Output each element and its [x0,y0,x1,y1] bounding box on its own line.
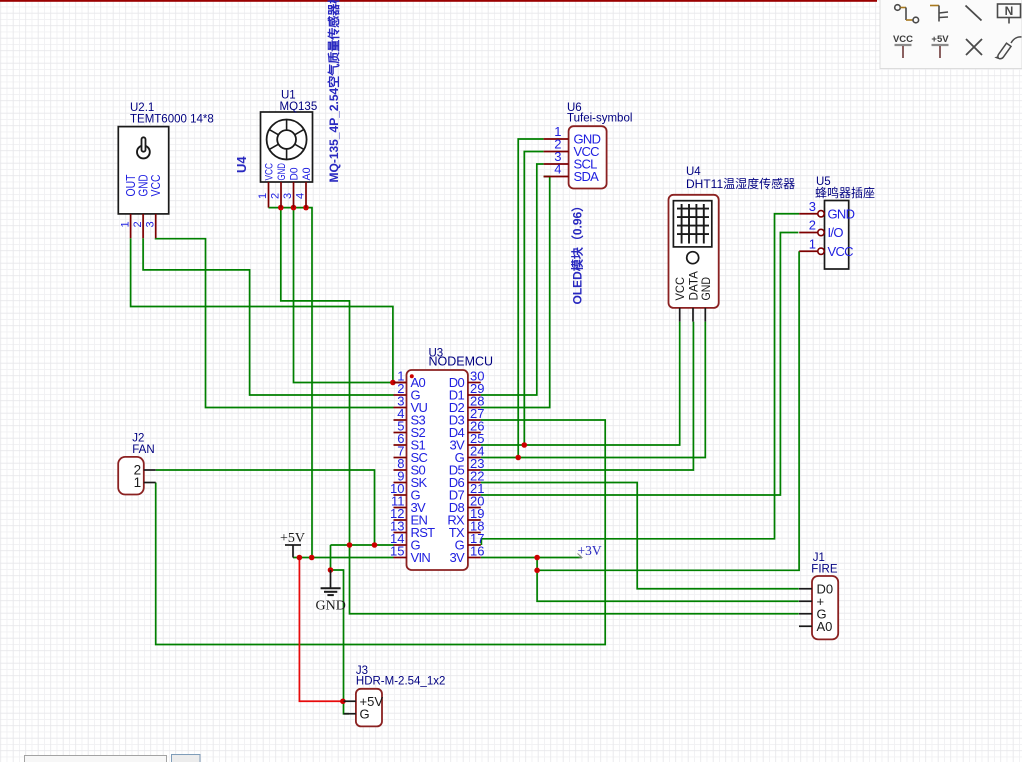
svg-text:+5V: +5V [931,34,949,45]
wire TEMT VCC to U3 VU [156,238,394,407]
svg-text:MQ-135_4P_2.54空气质量传感器模块: MQ-135_4P_2.54空气质量传感器模块 [326,0,341,183]
svg-text:VCC: VCC [828,244,854,259]
wire +5V rail to U3 VIN [293,557,394,559]
U3 pin 20 (D8) [468,507,481,509]
U3 pin 13 (RST) [394,532,407,534]
svg-text:GND: GND [276,163,288,181]
photosensor U2.1 TEMT6000 body [118,127,168,214]
U3 pin 29 (D1) [468,394,481,396]
U3 pin 14 (G) [394,544,407,546]
svg-text:3: 3 [145,221,157,227]
svg-text:3V: 3V [449,550,465,565]
U3 pin 4 (S3) [394,419,407,421]
U3 pin 5 (S2) [394,432,407,434]
bottom button [172,755,201,762]
U3 pin 24 (G) [468,457,481,459]
wire U6 VCC to U3 3V25 [524,152,543,446]
U2.1 pins 1,2,3 [130,214,132,238]
U6 pin 4 (SDA) [544,176,569,178]
junction [328,567,334,573]
+3V flag arrow [578,554,583,559]
J1 pin A0 [799,625,812,627]
junction [297,555,303,561]
junction [372,542,378,548]
svg-text:GND: GND [316,599,346,614]
svg-text:蜂鸣器插座: 蜂鸣器插座 [815,185,875,200]
U3 pin 3 (VU) [394,407,407,409]
toolbar icon wire tool [895,5,919,23]
svg-text:VIN: VIN [411,550,431,565]
U3 pin 27 (D3) [468,419,481,421]
U5 pin 3 (GND) [799,213,818,215]
U6 pin 1 (GND) [544,138,569,140]
svg-text:VCC: VCC [264,163,276,181]
wire J2 pin2 to U3 G14 [156,470,375,545]
wire U3 D6 to J1 D0 [481,483,799,589]
photosensor U2.1 symbol [137,146,150,159]
svg-text:U1: U1 [281,90,296,102]
svg-text:NODEMCU: NODEMCU [429,355,494,369]
U3 pin 11 (3V) [394,507,407,509]
connector J2 FAN body [118,457,144,495]
U3 pin 6 (S1) [394,444,407,446]
J1 pin D0 [799,588,812,590]
toolbar icon +5V tool [932,45,949,58]
svg-text:GND: GND [699,277,713,301]
toolbar icon netlabel tool [998,4,1021,24]
U5 pin 2 (I/O) [799,232,818,234]
wire U3 G14 row [331,544,394,546]
U3 pin 19 (RX) [468,519,481,521]
svg-text:Tufei-symbol: Tufei-symbol [567,113,632,125]
U3 pin 7 (SC) [394,457,407,459]
U6 pin 2 (VCC) [544,151,569,153]
power flag +5V [285,545,301,558]
J3 pin G [344,713,356,715]
svg-text:16: 16 [470,544,484,559]
wire U6 GND to U3 G24 [518,139,543,458]
MCU U3 NODEMCU body [407,370,468,570]
svg-text:U2.1: U2.1 [130,102,154,114]
U6 pin 3 (SCL) [544,163,569,165]
svg-text:D0: D0 [289,168,301,181]
wire MQ135 VCC to +5V rail [269,208,313,558]
wire 3V net to J1 + [537,558,799,602]
junction [278,205,284,211]
U3 pin 2 (G) [394,394,407,396]
U3 pin 1 (A0) [394,382,407,384]
junction [534,568,540,574]
svg-text:4: 4 [554,162,561,177]
U3 pin 16 (3V) [468,557,481,559]
svg-text:3: 3 [282,193,294,199]
wire U6 SDA to U3 D2 [481,177,550,408]
junction [340,698,346,704]
svg-text:2: 2 [809,218,816,233]
wire U6 SCL to U3 D1 [481,164,544,395]
svg-text:J1: J1 [813,552,825,564]
U4 pin DATA [692,308,694,322]
J1 pin G [799,613,812,615]
J1 pin + [799,600,812,602]
wire +5V to J3 +5V (red) [299,558,343,702]
junction [309,555,315,561]
wire U3 D3 to J2 pin1 [156,420,606,645]
svg-text:VCC: VCC [673,277,687,301]
toolbar icon pen tool [997,37,1022,59]
toolbar panel [880,0,1022,69]
bottom input box [25,756,167,762]
top red border line [0,0,877,2]
U3 pin 22 (D6) [468,482,481,484]
U3 pin 18 (TX) [468,532,481,534]
svg-text:1: 1 [809,236,816,251]
connector J3 HDR-M-2.54_1x2 body [356,689,382,727]
wire U3 G17 to U5 GND [481,214,799,545]
junction [390,380,396,386]
svg-text:+5V: +5V [280,531,305,546]
wire 3V net to U5 VCC [537,251,799,570]
junction [534,555,540,561]
U3 pin1 marker dot [410,374,414,378]
junction [347,542,353,548]
U3 pin 25 (3V) [468,444,481,446]
svg-text:DHT11温湿度传感器: DHT11温湿度传感器 [686,176,795,191]
U3 pin 17 (G) [468,544,481,546]
svg-text:VCC: VCC [893,34,913,45]
svg-text:MQ135: MQ135 [280,101,318,113]
toolbar icon bus tool [930,6,948,22]
gas sensor U1 MQ135 body [261,112,313,182]
wire U3 3V16 to +3V flag [481,557,582,559]
svg-text:4: 4 [295,193,307,199]
U4 grid symbol [673,201,711,247]
U3 pin 28 (D2) [468,407,481,409]
U3 pin 9 (SK) [394,482,407,484]
sensor U4 DHT11 body [669,195,719,308]
J2 pin 2 [144,469,156,471]
U4 pin VCC [679,308,681,322]
junction [303,205,309,211]
U3 pin 10 (G) [394,494,407,496]
U3 pin 23 (D5) [468,469,481,471]
svg-text:FAN: FAN [132,444,154,456]
U4 pin GND [704,308,706,322]
svg-text:U4: U4 [234,156,249,173]
svg-text:HDR-M-2.54_1x2: HDR-M-2.54_1x2 [356,676,445,688]
junction [515,455,521,461]
toolbar icon line tool [966,6,982,21]
svg-text:FIRE: FIRE [811,564,838,576]
svg-text:J2: J2 [132,433,144,445]
svg-text:3: 3 [809,199,816,214]
ground symbol GND [321,570,341,595]
svg-text:G: G [360,706,370,721]
wire GND to J3 G [331,545,350,714]
junction [291,205,297,211]
svg-text:SDA: SDA [574,169,600,184]
svg-text:VCC: VCC [148,175,163,197]
U1 pins 1-4 [268,182,270,208]
U3 pin 30 (D0) [468,382,481,384]
wire MQ135 D0 to U3 A0 [294,208,393,383]
U3 pin 15 (VIN) [394,557,407,559]
svg-text:N: N [1005,4,1014,18]
U1 fan symbol [267,120,307,160]
buzzer socket U5 body [825,201,849,270]
wire U3 G24 to DHT GND [481,322,706,458]
wire U3 D7 to U5 I/O [481,233,799,496]
svg-text:GND: GND [828,206,855,221]
U3 pin 8 (S0) [394,469,407,471]
svg-text:A0: A0 [817,619,833,634]
pin stub U3 pin1 [394,382,407,384]
svg-text:1: 1 [134,475,142,490]
wire TEMT OUT to U3 A0 [131,238,393,382]
U4 circle symbol [687,252,699,264]
svg-text:15: 15 [390,544,404,559]
svg-text:2: 2 [270,193,282,199]
U5 pin 1 (VCC) [799,250,818,252]
svg-text:2: 2 [132,221,144,227]
toolbar icon VCC tool [895,45,912,58]
U3 pin 21 (D7) [468,494,481,496]
wire U3 D5 to DHT DATA [481,322,694,470]
J3 pin +5V [344,700,356,702]
connector J1 FIRE body [812,576,838,639]
svg-text:1: 1 [257,193,269,199]
svg-text:OLED模块（0.96）: OLED模块（0.96） [570,200,585,305]
toolbar icon no-connect tool [966,39,982,55]
svg-text:+3V: +3V [578,543,602,558]
J2 pin 1 [144,482,156,484]
svg-text:TEMT6000 14*8: TEMT6000 14*8 [130,114,214,126]
svg-text:I/O: I/O [828,225,844,240]
wire TEMT GND to U3 pin2 G [143,238,393,395]
OLED module U6 Tufei-symbol body [569,126,607,188]
U3 pin 26 (D4) [468,432,481,434]
wire MQ135 GND / J1 G net [281,208,799,614]
junction [522,442,528,448]
wire U3 3V25 to DHT VCC [481,322,680,445]
svg-text:1: 1 [120,221,132,227]
U3 pin 12 (EN) [394,519,407,521]
svg-text:A0: A0 [301,168,313,181]
